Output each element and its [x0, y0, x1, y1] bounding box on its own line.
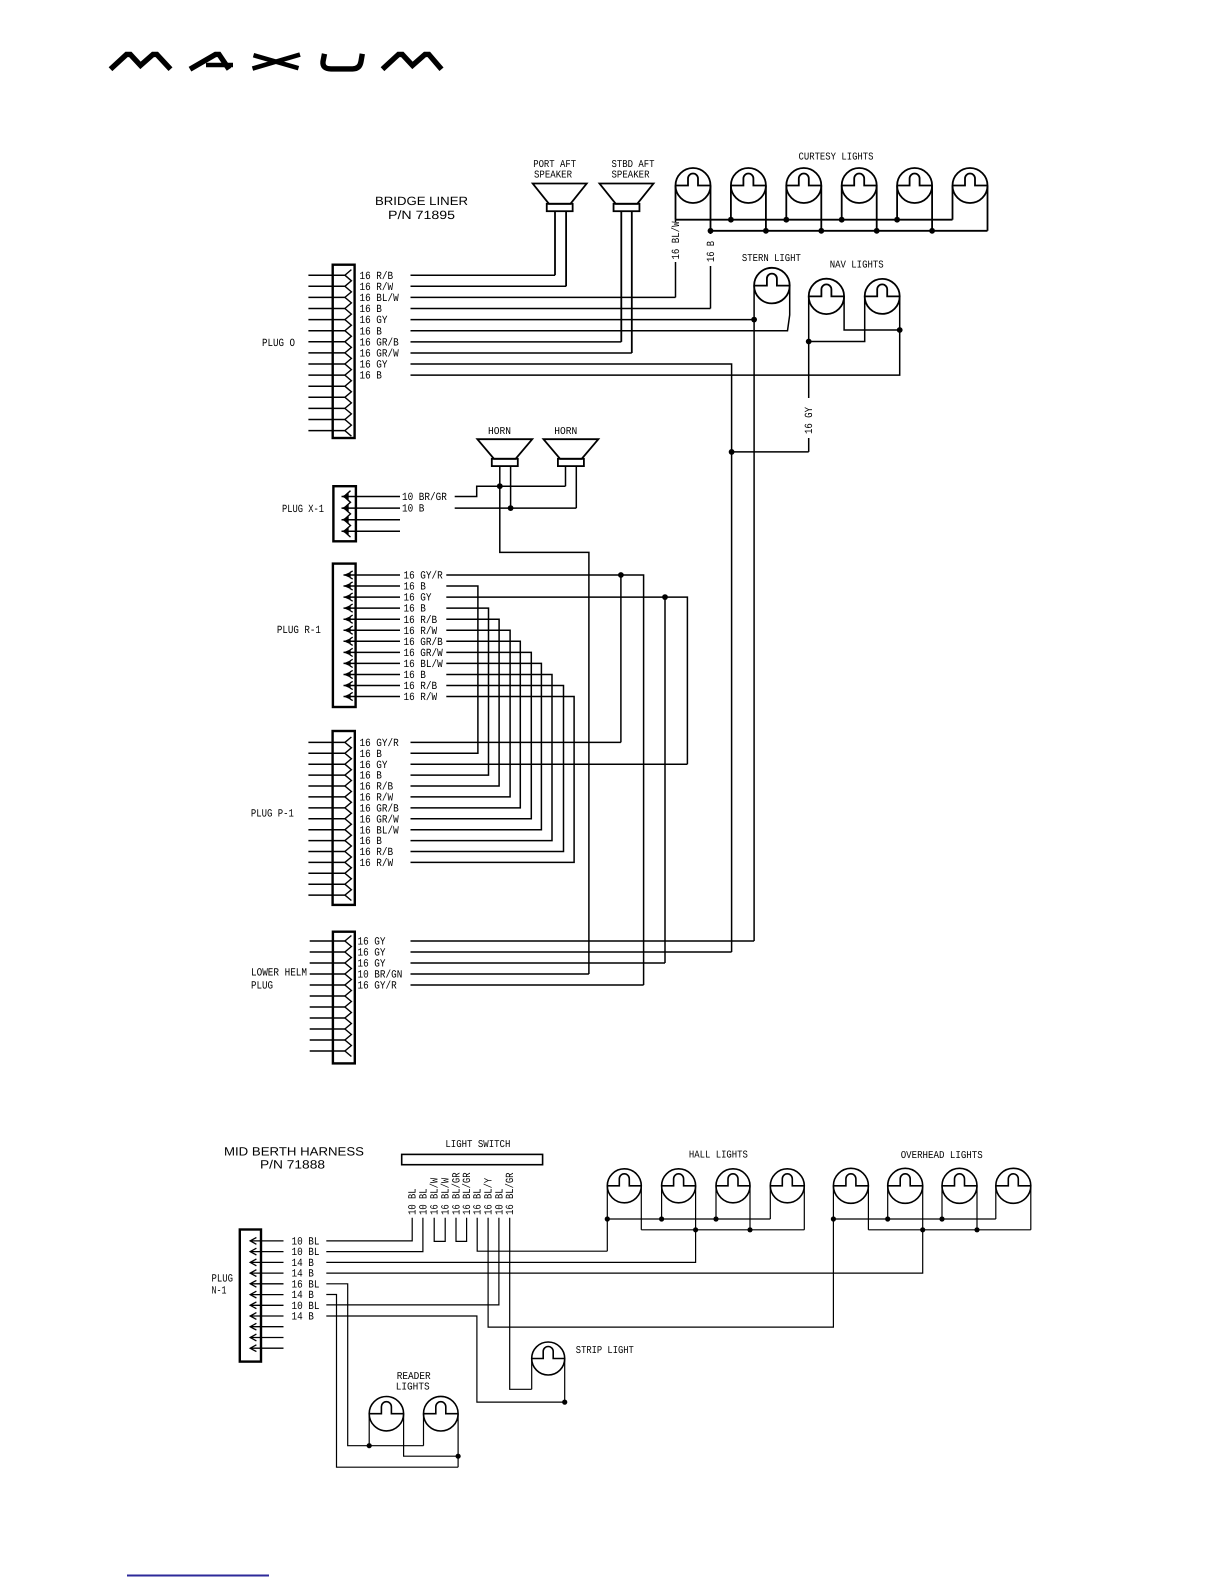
wire hall3 left: [715, 1186, 717, 1219]
wire courtesy 5 left: [896, 186, 898, 220]
junction courtesy bus BL/W: [783, 217, 789, 223]
wire overhead1 right: [867, 1186, 869, 1230]
svg-text:10 BR/GR: 10 BR/GR: [402, 492, 447, 504]
wire overhead3 left: [941, 1186, 943, 1219]
connector PLUG N-1: [240, 1230, 284, 1362]
wire hall1 left: [606, 1186, 608, 1251]
wire 16 B courtesy to pin4: [710, 231, 712, 234]
wire lower helm pin3 row 16 GY: [411, 962, 666, 964]
switch wires 5-6 loop 16 BL/GR: [456, 1218, 467, 1242]
wire overhead2 right: [922, 1186, 924, 1230]
svg-text:PLUG R-1: PLUG R-1: [277, 625, 321, 637]
junction courtesy bus B: [874, 228, 880, 234]
junction nav2 right: [897, 327, 903, 333]
wire pin8 row 16 GR/W: [411, 352, 632, 354]
wire R-1 pin12 to P-1 pin12: [411, 697, 575, 863]
svg-text:16 B: 16 B: [706, 241, 718, 262]
nav light 2: [865, 279, 900, 314]
wire R-1 pin3 16 GY row: [446, 597, 687, 764]
junction R-1 pin3: [662, 594, 668, 600]
svg-text:10 B: 10 B: [402, 504, 425, 516]
junction stern light 16 GY: [751, 317, 757, 323]
junction R-1 pin1: [618, 572, 624, 578]
wire hall1 right: [640, 1186, 642, 1230]
svg-text:SPEAKER: SPEAKER: [612, 170, 651, 182]
junction courtesy bus B: [818, 228, 824, 234]
courtesy bus BL/W: [676, 219, 953, 221]
horn 1: [477, 439, 532, 466]
svg-text:14 B: 14 B: [292, 1312, 315, 1324]
junction hall2 right: [693, 1227, 698, 1232]
junction overhead1 left: [831, 1216, 836, 1221]
svg-text:PLUG: PLUG: [251, 981, 273, 993]
wire R-1 pin1 16 GY/R row: [446, 575, 643, 985]
wire 16 GY down to lower helm pin3: [664, 597, 666, 963]
junction horn1 right: [508, 505, 514, 511]
wire courtesy 5 right: [931, 186, 933, 231]
wire N-1 pin3 14 B to hall lights: [326, 1230, 695, 1263]
wire overhead3 right: [976, 1186, 978, 1230]
junction courtesy bus B: [763, 228, 769, 234]
svg-text:16 R/W: 16 R/W: [404, 692, 438, 704]
wire horn2 left: [565, 466, 567, 486]
junction courtesy bus BL/W: [894, 217, 900, 223]
wire N-1 pin8 14 B to strip light return: [326, 1316, 564, 1402]
junction overhead2 left: [885, 1216, 890, 1221]
hall light 1: [607, 1169, 641, 1203]
svg-text:MID BERTH HARNESS: MID BERTH HARNESS: [224, 1145, 364, 1159]
wire horn1 right: [510, 466, 512, 508]
svg-text:P/N 71895: P/N 71895: [388, 208, 455, 222]
switch wire 7 16 BL to hall lights: [477, 1218, 607, 1252]
wire pin2 row 16 R/W: [411, 285, 567, 287]
wire courtesy 2 left: [730, 186, 732, 220]
svg-text:CURTESY LIGHTS: CURTESY LIGHTS: [799, 152, 874, 164]
horn 2: [543, 439, 598, 466]
svg-text:16 BL/GR: 16 BL/GR: [505, 1172, 517, 1215]
wire overhead4 left: [995, 1186, 997, 1219]
svg-text:OVERHEAD LIGHTS: OVERHEAD LIGHTS: [901, 1150, 983, 1162]
courtesy light 3: [786, 168, 821, 203]
svg-text:16 R/W: 16 R/W: [360, 858, 394, 870]
wire R-1 pin7 to P-1 pin7: [411, 641, 521, 808]
courtesy light 1: [676, 168, 711, 203]
stbd aft speaker: [600, 184, 654, 212]
courtesy light 6: [953, 168, 988, 203]
wire reader2 right: [457, 1414, 459, 1468]
junction courtesy bus BL/W: [839, 217, 845, 223]
MAXUM logo: [111, 54, 442, 69]
connector LOWER HELM PLUG: [310, 932, 355, 1064]
switch wires 3-4 loop 16 BL/W: [434, 1218, 445, 1242]
wire courtesy 1 right: [710, 186, 712, 231]
hall light 4: [770, 1169, 804, 1203]
wire courtesy 6 left: [952, 186, 954, 220]
nav light 1: [809, 279, 844, 314]
wire N-1 pin4 14 B to overhead lights: [326, 1230, 922, 1273]
wire courtesy 3 right: [820, 186, 822, 231]
svg-text:BRIDGE LINER: BRIDGE LINER: [375, 194, 468, 208]
svg-text:PLUG X-1: PLUG X-1: [282, 504, 324, 516]
svg-text:HORN: HORN: [554, 426, 577, 438]
wire 16 GY/R down to P-1 pin1: [620, 575, 622, 742]
courtesy bus B: [711, 230, 988, 232]
wire pin7 row 16 GR/B: [411, 341, 622, 343]
wire stbd speaker right to pin8: [631, 211, 633, 353]
strip light: [532, 1342, 565, 1375]
svg-text:16 B: 16 B: [360, 371, 383, 383]
svg-text:16 GY: 16 GY: [804, 407, 816, 434]
junction overhead3 left: [939, 1216, 944, 1221]
wire courtesy 6 right (bus end riser): [987, 186, 989, 231]
junction courtesy bus B: [708, 228, 714, 234]
svg-text:N-1: N-1: [212, 1286, 227, 1298]
wire lower helm pin5 row 16 GY/R: [411, 984, 644, 986]
wire overhead4 right: [1030, 1186, 1032, 1230]
switch wire 2 to N-1 pin2: [326, 1218, 423, 1252]
junction hall1 left: [605, 1216, 610, 1221]
wire lower helm pin4 row 10 BR/GN: [411, 973, 589, 975]
wire courtesy 1 left: [675, 186, 677, 220]
wire R-1 pin8 to P-1 pin8: [411, 652, 532, 818]
wire nav2 left: [809, 296, 865, 341]
junction hall3 right: [747, 1227, 752, 1232]
wire port speaker left to pin1: [554, 211, 556, 275]
wire horn2 right: [575, 466, 577, 508]
svg-text:STERN LIGHT: STERN LIGHT: [742, 253, 801, 265]
wire pin9 row 16 GY down to lower helm pin2: [411, 364, 732, 952]
junction horn1 left: [497, 483, 503, 489]
wire courtesy 4 left: [841, 186, 843, 220]
connector PLUG O: [308, 265, 354, 438]
wire P-1 pin3 row: [411, 763, 688, 765]
wire nav1 right: [844, 296, 900, 330]
hall bus 1: [607, 1218, 770, 1220]
junction strip right: [562, 1400, 567, 1405]
svg-text:PLUG P-1: PLUG P-1: [251, 809, 294, 821]
switch wire 8 16 BL/Y to overhead lights: [488, 1218, 833, 1327]
wire R-1 pin2 to P-1 pin2: [411, 586, 478, 753]
wire nav2 right / pin10 row 16 B: [411, 296, 900, 375]
courtesy light 5: [897, 168, 932, 203]
svg-text:LOWER HELM: LOWER HELM: [251, 968, 307, 980]
hall light 3: [716, 1169, 750, 1203]
wire R-1 pin10 to P-1 pin10: [411, 675, 553, 841]
junction courtesy bus B: [929, 228, 935, 234]
wire courtesy 4 right: [876, 186, 878, 231]
overhead light 2: [888, 1168, 923, 1203]
wire port speaker right to pin2: [565, 211, 567, 286]
wire R-1 pin6 to P-1 pin6: [411, 630, 511, 797]
reader light 1: [369, 1397, 403, 1431]
svg-text:PLUG: PLUG: [212, 1274, 234, 1286]
wire N-1 pin5 16 BL to reader lights: [326, 1284, 423, 1446]
wire R-1 pin5 to P-1 pin5: [411, 619, 500, 786]
wire nav1 left down (16 GY): [808, 296, 810, 398]
wire reader1 right: [404, 1414, 459, 1457]
wire R-1 pin11 to P-1 pin11: [411, 686, 564, 852]
svg-text:16 BL/W: 16 BL/W: [671, 221, 683, 259]
wire lower helm pin1 row 16 GY: [411, 940, 755, 942]
wire strip right: [564, 1359, 566, 1403]
switch wire 1 to N-1 pin1: [326, 1218, 412, 1241]
footer rule: [127, 1575, 269, 1577]
wire 10 BR/GR X-1 pin1 to horns: [455, 486, 566, 496]
overhead light 4: [996, 1168, 1031, 1203]
svg-text:HALL LIGHTS: HALL LIGHTS: [689, 1150, 748, 1162]
wire N-1 pin6 14 B to reader lights return: [326, 1295, 458, 1468]
svg-text:16 GY/R: 16 GY/R: [358, 981, 398, 993]
junction nav1 left: [806, 339, 812, 345]
svg-text:HORN: HORN: [488, 426, 511, 438]
reader light 2: [424, 1396, 459, 1431]
overhead light 1: [833, 1168, 868, 1203]
overhead bus 1: [833, 1218, 995, 1220]
svg-text:LIGHTS: LIGHTS: [396, 1382, 430, 1394]
stern light: [754, 268, 790, 304]
wire hall2 left: [661, 1186, 663, 1219]
svg-text:SPEAKER: SPEAKER: [534, 170, 573, 182]
wire R-1 pin9 to P-1 pin9: [411, 663, 542, 829]
svg-text:10 BL: 10 BL: [418, 1188, 430, 1215]
wire overhead1 left: [832, 1186, 834, 1219]
wire reader1 left: [368, 1414, 370, 1446]
hall bus 2: [641, 1229, 804, 1231]
junction hall2 left: [659, 1216, 664, 1221]
wire courtesy 3 left: [785, 186, 787, 220]
connector PLUG X-1: [333, 486, 400, 541]
wire stern right to pin6 row: [411, 286, 790, 331]
svg-text:NAV LIGHTS: NAV LIGHTS: [830, 259, 884, 271]
wire courtesy 2 right: [765, 186, 767, 231]
svg-text:PLUG O: PLUG O: [262, 338, 295, 350]
connector PLUG R-1: [333, 564, 400, 707]
courtesy light 4: [842, 168, 877, 203]
wire hall4 right: [803, 1186, 805, 1230]
wire R-1 pin4 to P-1 pin4: [411, 608, 489, 775]
overhead light 3: [942, 1168, 977, 1203]
wire 10 B X-1 pin2 to horns: [455, 507, 577, 509]
svg-text:LIGHT SWITCH: LIGHT SWITCH: [445, 1139, 510, 1151]
wire hall2 right down to N-1 pin3 run: [695, 1186, 697, 1230]
connector PLUG P-1: [308, 731, 354, 905]
switch wire 9 10 BL to N-1 pin7: [326, 1218, 499, 1305]
switch wire 10 16 BL/GR to strip light: [510, 1218, 532, 1390]
svg-text:STRIP LIGHT: STRIP LIGHT: [576, 1345, 634, 1357]
wire stern left / 16 GY feed down to lower helm pin1: [753, 286, 755, 941]
port aft speaker: [533, 184, 587, 212]
wire pin5 row 16 GY: [411, 319, 755, 321]
wire hall3 right: [749, 1186, 751, 1230]
wire overhead2 left: [887, 1186, 889, 1219]
junction courtesy bus BL/W: [728, 217, 734, 223]
wire 16 BL/W courtesy to pin3: [675, 220, 677, 223]
junction reader2 right: [456, 1454, 461, 1459]
wire horn1 left down to BR/GN run: [500, 466, 589, 974]
wire lower helm pin2 row 16 GY: [411, 951, 732, 953]
junction reader1 left: [367, 1443, 372, 1448]
hall light 2: [662, 1169, 696, 1203]
wire hall4 left: [769, 1186, 771, 1219]
junction overhead2 right: [920, 1227, 925, 1232]
svg-text:P/N 71888: P/N 71888: [260, 1158, 325, 1172]
wire P-1 pin1 row: [411, 741, 621, 743]
junction 16 GY at 731,452: [729, 449, 735, 455]
junction hall3 left: [713, 1216, 718, 1221]
wire reader2 left: [423, 1414, 425, 1446]
overhead bus 2: [868, 1229, 1030, 1231]
courtesy light 2: [731, 168, 766, 203]
wire stbd speaker left to pin7: [620, 211, 622, 342]
wire pin1 row 16 R/B: [411, 274, 556, 276]
junction overhead3 right: [974, 1227, 979, 1232]
wire strip left: [531, 1359, 533, 1390]
